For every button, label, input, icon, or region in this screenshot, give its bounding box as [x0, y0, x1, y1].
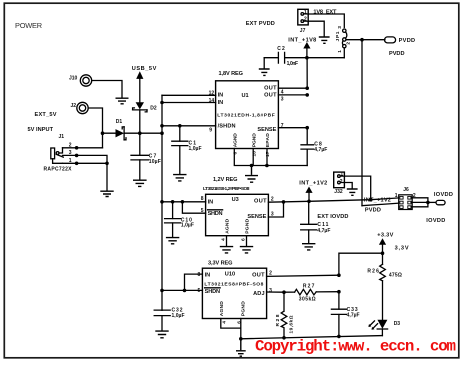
wire J32 pin2 to ground	[340, 183, 352, 189]
wire J32 pin1 to INT_+1V2	[340, 176, 371, 200]
svg-text:J1: J1	[59, 134, 65, 140]
svg-text:SHDN: SHDN	[205, 289, 221, 295]
node INT_+1V8 tap	[305, 56, 309, 60]
node C1 top	[178, 124, 182, 128]
svg-text:1: 1	[337, 50, 343, 53]
svg-text:OUT: OUT	[264, 85, 277, 91]
wire INT_+1V8 down to OUT	[306, 49, 308, 89]
svg-text:EXT_5V: EXT_5V	[35, 112, 57, 118]
resistor R26	[367, 264, 402, 281]
node rail/D2	[138, 131, 142, 135]
svg-text:1,0µF: 1,0µF	[172, 313, 185, 319]
regulator U3	[201, 194, 274, 241]
net INT_+1V8	[288, 37, 316, 48]
svg-text:6: 6	[233, 152, 239, 155]
capacitor C8	[301, 128, 327, 166]
node J1 pin2	[75, 146, 79, 150]
svg-text:5V INPUT: 5V INPUT	[28, 127, 54, 133]
wire R26 to D3	[382, 281, 384, 320]
LED D3	[368, 320, 400, 330]
svg-text:U10: U10	[225, 271, 235, 277]
svg-text:2: 2	[269, 270, 272, 276]
node 3.3V tap	[381, 251, 385, 255]
svg-text:1,0µF: 1,0µF	[181, 223, 194, 229]
resistor R27	[295, 284, 317, 303]
svg-text:4,7µF: 4,7µF	[314, 147, 327, 153]
svg-text:R27: R27	[303, 284, 315, 290]
capacitor C7	[131, 153, 161, 165]
capacitor C32	[154, 307, 184, 330]
svg-text:PVDD: PVDD	[399, 38, 416, 44]
svg-text:IN: IN	[208, 199, 214, 205]
wire 5V rail	[103, 132, 163, 134]
ground (C32)	[155, 331, 168, 338]
svg-text:J2: J2	[71, 103, 77, 109]
svg-text:3,3V: 3,3V	[395, 246, 409, 252]
wire D2 to rail	[139, 110, 141, 133]
wire C2 to ground	[263, 58, 265, 69]
wire J1 pin3	[63, 155, 108, 163]
wire U10 ADJ pin3	[267, 291, 295, 293]
svg-text:D2: D2	[150, 106, 157, 112]
svg-text:OUT: OUT	[264, 93, 277, 99]
wire U3 PGND pin6 to ground	[246, 236, 248, 246]
header J32	[334, 172, 345, 195]
svg-text:C2: C2	[277, 46, 285, 52]
node R28 bottom	[282, 336, 286, 340]
node PVDD junction	[360, 38, 364, 42]
svg-text:PVDD: PVDD	[365, 207, 381, 213]
svg-text:1: 1	[304, 9, 307, 15]
node SHDN junction	[160, 124, 164, 128]
svg-text:1,2V REG: 1,2V REG	[213, 177, 238, 183]
svg-text:3: 3	[337, 26, 343, 29]
svg-text:1,8V REG: 1,8V REG	[219, 71, 244, 77]
connector J1 RAPC722X	[44, 134, 73, 173]
wire J2 down to 5V rail	[88, 108, 102, 148]
wire USB_5V to D2	[139, 79, 141, 102]
node IOVDD join	[426, 201, 430, 205]
svg-text:9: 9	[209, 128, 212, 134]
svg-text:AGND: AGND	[225, 218, 231, 233]
svg-text:INT_+1V2: INT_+1V2	[299, 180, 327, 186]
capacitor C11	[301, 201, 331, 243]
wire J1 pin1 to ground	[63, 163, 108, 190]
connector J10	[69, 75, 92, 86]
svg-text:3: 3	[281, 97, 284, 103]
node OUT3	[305, 93, 309, 97]
wire PVDD vertical to J6	[361, 40, 363, 206]
svg-text:/SHDN: /SHDN	[218, 123, 236, 129]
svg-text:RAPC722X: RAPC722X	[44, 166, 73, 172]
node R27/C33 line	[337, 290, 341, 294]
ground (J10)	[116, 98, 129, 104]
svg-text:AGND: AGND	[233, 133, 239, 147]
wire INT_+1V2 arrow stem	[308, 193, 310, 201]
svg-text:PGND: PGND	[240, 301, 246, 316]
svg-text:4: 4	[221, 238, 227, 241]
net USB_5V	[132, 66, 157, 79]
node C33 bottom	[337, 335, 341, 339]
svg-text:U3: U3	[232, 197, 239, 203]
wire U10 SHDN pin5	[162, 289, 202, 291]
wire U10 IN pin8	[185, 274, 203, 290]
node OUT4	[305, 86, 309, 90]
capacitor C1	[172, 126, 202, 174]
node U1 gnd rail	[250, 164, 254, 168]
wire to IOVDD flag	[428, 201, 436, 203]
node J32/1V2 join	[369, 198, 373, 202]
wire U1 OUT pin3	[278, 94, 307, 96]
net INT_+1V2	[299, 180, 327, 193]
wire U1 OUT pin4	[278, 87, 307, 89]
svg-text:IN: IN	[218, 100, 224, 106]
wire PVDD tap	[362, 39, 385, 41]
net flag IOVDD	[434, 192, 453, 205]
wire OUT up to 3.3V point	[339, 253, 383, 275]
wire U1 bottom pins to gnd rail	[234, 149, 307, 166]
wire U3 OUT to J6	[268, 198, 398, 202]
node IN14 junction	[160, 101, 164, 105]
ground (U3 PGND)	[240, 247, 253, 253]
wire U10 OUT pin2	[267, 275, 339, 276]
svg-text:U1: U1	[242, 93, 249, 99]
svg-text:R26: R26	[367, 269, 379, 275]
wire main vertical distribution	[161, 95, 163, 310]
svg-text:1: 1	[395, 193, 398, 199]
connector J2	[71, 102, 89, 113]
svg-text:AGND: AGND	[219, 301, 225, 316]
svg-text:J7: J7	[300, 28, 306, 34]
svg-text:EPAD: EPAD	[265, 133, 271, 147]
node OUT/C33	[337, 273, 341, 277]
wire PVDD row into J6	[362, 203, 399, 206]
wire J1 pin2 to rail	[63, 147, 103, 149]
node rail/main vertical	[160, 131, 164, 135]
svg-text:14: 14	[209, 98, 215, 104]
svg-text:6: 6	[241, 238, 247, 241]
svg-text:D1: D1	[116, 119, 123, 125]
node 5V rail / J2 junction	[101, 131, 105, 135]
ground (U3 AGND)	[220, 247, 233, 253]
wire U3 AGND pin4 to ground	[226, 236, 228, 246]
svg-text:J6: J6	[403, 187, 409, 193]
svg-text:+3.3V: +3.3V	[377, 233, 393, 239]
svg-text:2: 2	[346, 42, 352, 45]
svg-text:OUT: OUT	[254, 199, 267, 205]
wire U1 /SHDN pin9	[162, 125, 216, 127]
svg-text:JP1: JP1	[335, 31, 341, 41]
capacitor C2	[264, 46, 344, 67]
svg-text:IOVDD: IOVDD	[434, 192, 453, 198]
wire U1 pin14	[162, 102, 216, 104]
svg-text:INT_+1V8: INT_+1V8	[288, 37, 316, 43]
svg-text:Copyright:www. eccn. com: Copyright:www. eccn. com	[255, 338, 456, 356]
diode D1 schottky	[116, 119, 127, 140]
ground (C1)	[173, 175, 186, 181]
node J1 pin3	[75, 154, 79, 158]
svg-text:D3: D3	[394, 321, 401, 327]
wire C7 to ground	[139, 160, 141, 180]
svg-text:10µF: 10µF	[149, 159, 161, 165]
capacitor C33	[331, 292, 359, 337]
svg-text:POWER: POWER	[15, 21, 43, 30]
net flag PVDD	[385, 37, 416, 44]
svg-text:2: 2	[304, 17, 307, 23]
header J7	[298, 9, 308, 34]
node U1 EPAD rail	[265, 164, 269, 168]
svg-text:4,7µF: 4,7µF	[347, 313, 360, 319]
wire R27 to C33 line	[316, 291, 339, 293]
svg-text:EXT IOVDD: EXT IOVDD	[317, 214, 348, 220]
svg-text:12: 12	[209, 91, 215, 97]
node SHDN bend	[181, 200, 185, 204]
node C10 tap	[171, 200, 175, 204]
header J6	[395, 187, 416, 210]
ground (U1 rail)	[245, 166, 258, 183]
ground (C10)	[166, 238, 179, 244]
wire U10 AGND/PGND to rail	[221, 319, 241, 339]
svg-text:LT3021ES8#PBF-SO8: LT3021ES8#PBF-SO8	[204, 281, 263, 287]
svg-text:LT3021EDH-1,8#PBF: LT3021EDH-1,8#PBF	[217, 113, 274, 119]
svg-text:17: 17	[265, 151, 271, 157]
regulator U1 LT3021EDH	[209, 81, 284, 157]
ground (C2)	[259, 69, 270, 75]
svg-text:4,7µF: 4,7µF	[317, 228, 330, 234]
svg-text:475Ω: 475Ω	[389, 273, 402, 279]
ground (U10 / rail)	[236, 339, 246, 356]
net +3.3V	[377, 233, 393, 245]
svg-text:USB_5V: USB_5V	[132, 66, 157, 72]
node pin1/pin3 join	[105, 162, 109, 166]
svg-text:J10: J10	[69, 76, 78, 82]
svg-text:PGND: PGND	[251, 133, 257, 147]
wire U3 IN pin8	[162, 201, 206, 203]
node ADJ/R28	[282, 290, 286, 294]
diode D2 schottky	[133, 102, 157, 112]
ground (C7)	[133, 180, 147, 186]
wire J7 pin1 to JP1 pin3	[308, 14, 344, 28]
svg-text:OUT: OUT	[252, 273, 265, 279]
svg-text:IN: IN	[218, 93, 224, 99]
ground (J1)	[100, 191, 113, 196]
svg-text:3,3V REG: 3,3V REG	[208, 260, 233, 266]
svg-text:19,6kΩ: 19,6kΩ	[289, 315, 295, 333]
resistor R28	[275, 292, 295, 338]
node U10 SHDN / main vertical	[160, 289, 164, 293]
svg-text:4: 4	[221, 321, 227, 324]
wire rail to C7	[139, 133, 141, 155]
wire U3 SHDN pin5	[182, 202, 205, 213]
svg-text:IN: IN	[205, 273, 211, 279]
node OUT/SENSE join	[282, 200, 286, 204]
svg-text:LT3021ES8-1,2#PBF•SO8: LT3021ES8-1,2#PBF•SO8	[203, 186, 250, 192]
node SENSE7	[305, 126, 309, 130]
wire J10 to ground	[92, 81, 122, 98]
svg-text:2: 2	[271, 196, 274, 202]
svg-text:1,0µF: 1,0µF	[189, 146, 202, 152]
wire U3 SENSE loop	[268, 202, 283, 217]
regulator U10	[198, 268, 273, 324]
svg-text:8: 8	[198, 272, 201, 278]
node INT_+1V2 tap	[307, 200, 311, 204]
svg-text:SHDN: SHDN	[208, 211, 223, 217]
svg-text:3: 3	[269, 288, 272, 294]
svg-text:10: 10	[251, 151, 257, 157]
wire U1 pin12	[162, 94, 216, 96]
node IN/SHDN join	[183, 289, 187, 293]
svg-text:ADJ: ADJ	[253, 291, 265, 297]
wire J7 pin2 to ground	[308, 21, 324, 36]
wire bottom gnd rail	[241, 336, 383, 339]
ground (J7 pin2)	[319, 37, 330, 43]
node U3 IN / main vertical	[160, 200, 164, 204]
jumper JP1	[335, 26, 352, 53]
svg-text:SENSE: SENSE	[257, 127, 276, 133]
wire U1 SENSE pin7	[278, 127, 307, 129]
svg-text:R28: R28	[275, 314, 281, 326]
svg-text:EXT PVDD: EXT PVDD	[246, 21, 275, 27]
svg-text:J32: J32	[334, 189, 343, 195]
wire JP1 pin1 down to INT_+1V8	[343, 48, 345, 58]
node U10 gnd / rail	[239, 337, 243, 341]
svg-text:PGND: PGND	[245, 218, 251, 233]
node J1 pin1	[75, 162, 79, 166]
wire J6 right pins to IOVDD	[411, 198, 428, 207]
wire +3.3V to R26	[382, 245, 384, 264]
svg-text:305kΩ: 305kΩ	[299, 297, 316, 303]
ground (C11)	[302, 244, 315, 250]
svg-text:1,0nF: 1,0nF	[287, 61, 299, 67]
wire JP1 pin2 to PVDD	[346, 39, 362, 41]
svg-text:IOVDD: IOVDD	[426, 218, 445, 224]
svg-text:INT_+1V2: INT_+1V2	[364, 198, 391, 204]
ground (J32)	[347, 189, 358, 195]
capacitor C10	[165, 202, 194, 237]
wire D3 to rail	[381, 329, 383, 336]
svg-text:PVDD: PVDD	[389, 51, 405, 57]
